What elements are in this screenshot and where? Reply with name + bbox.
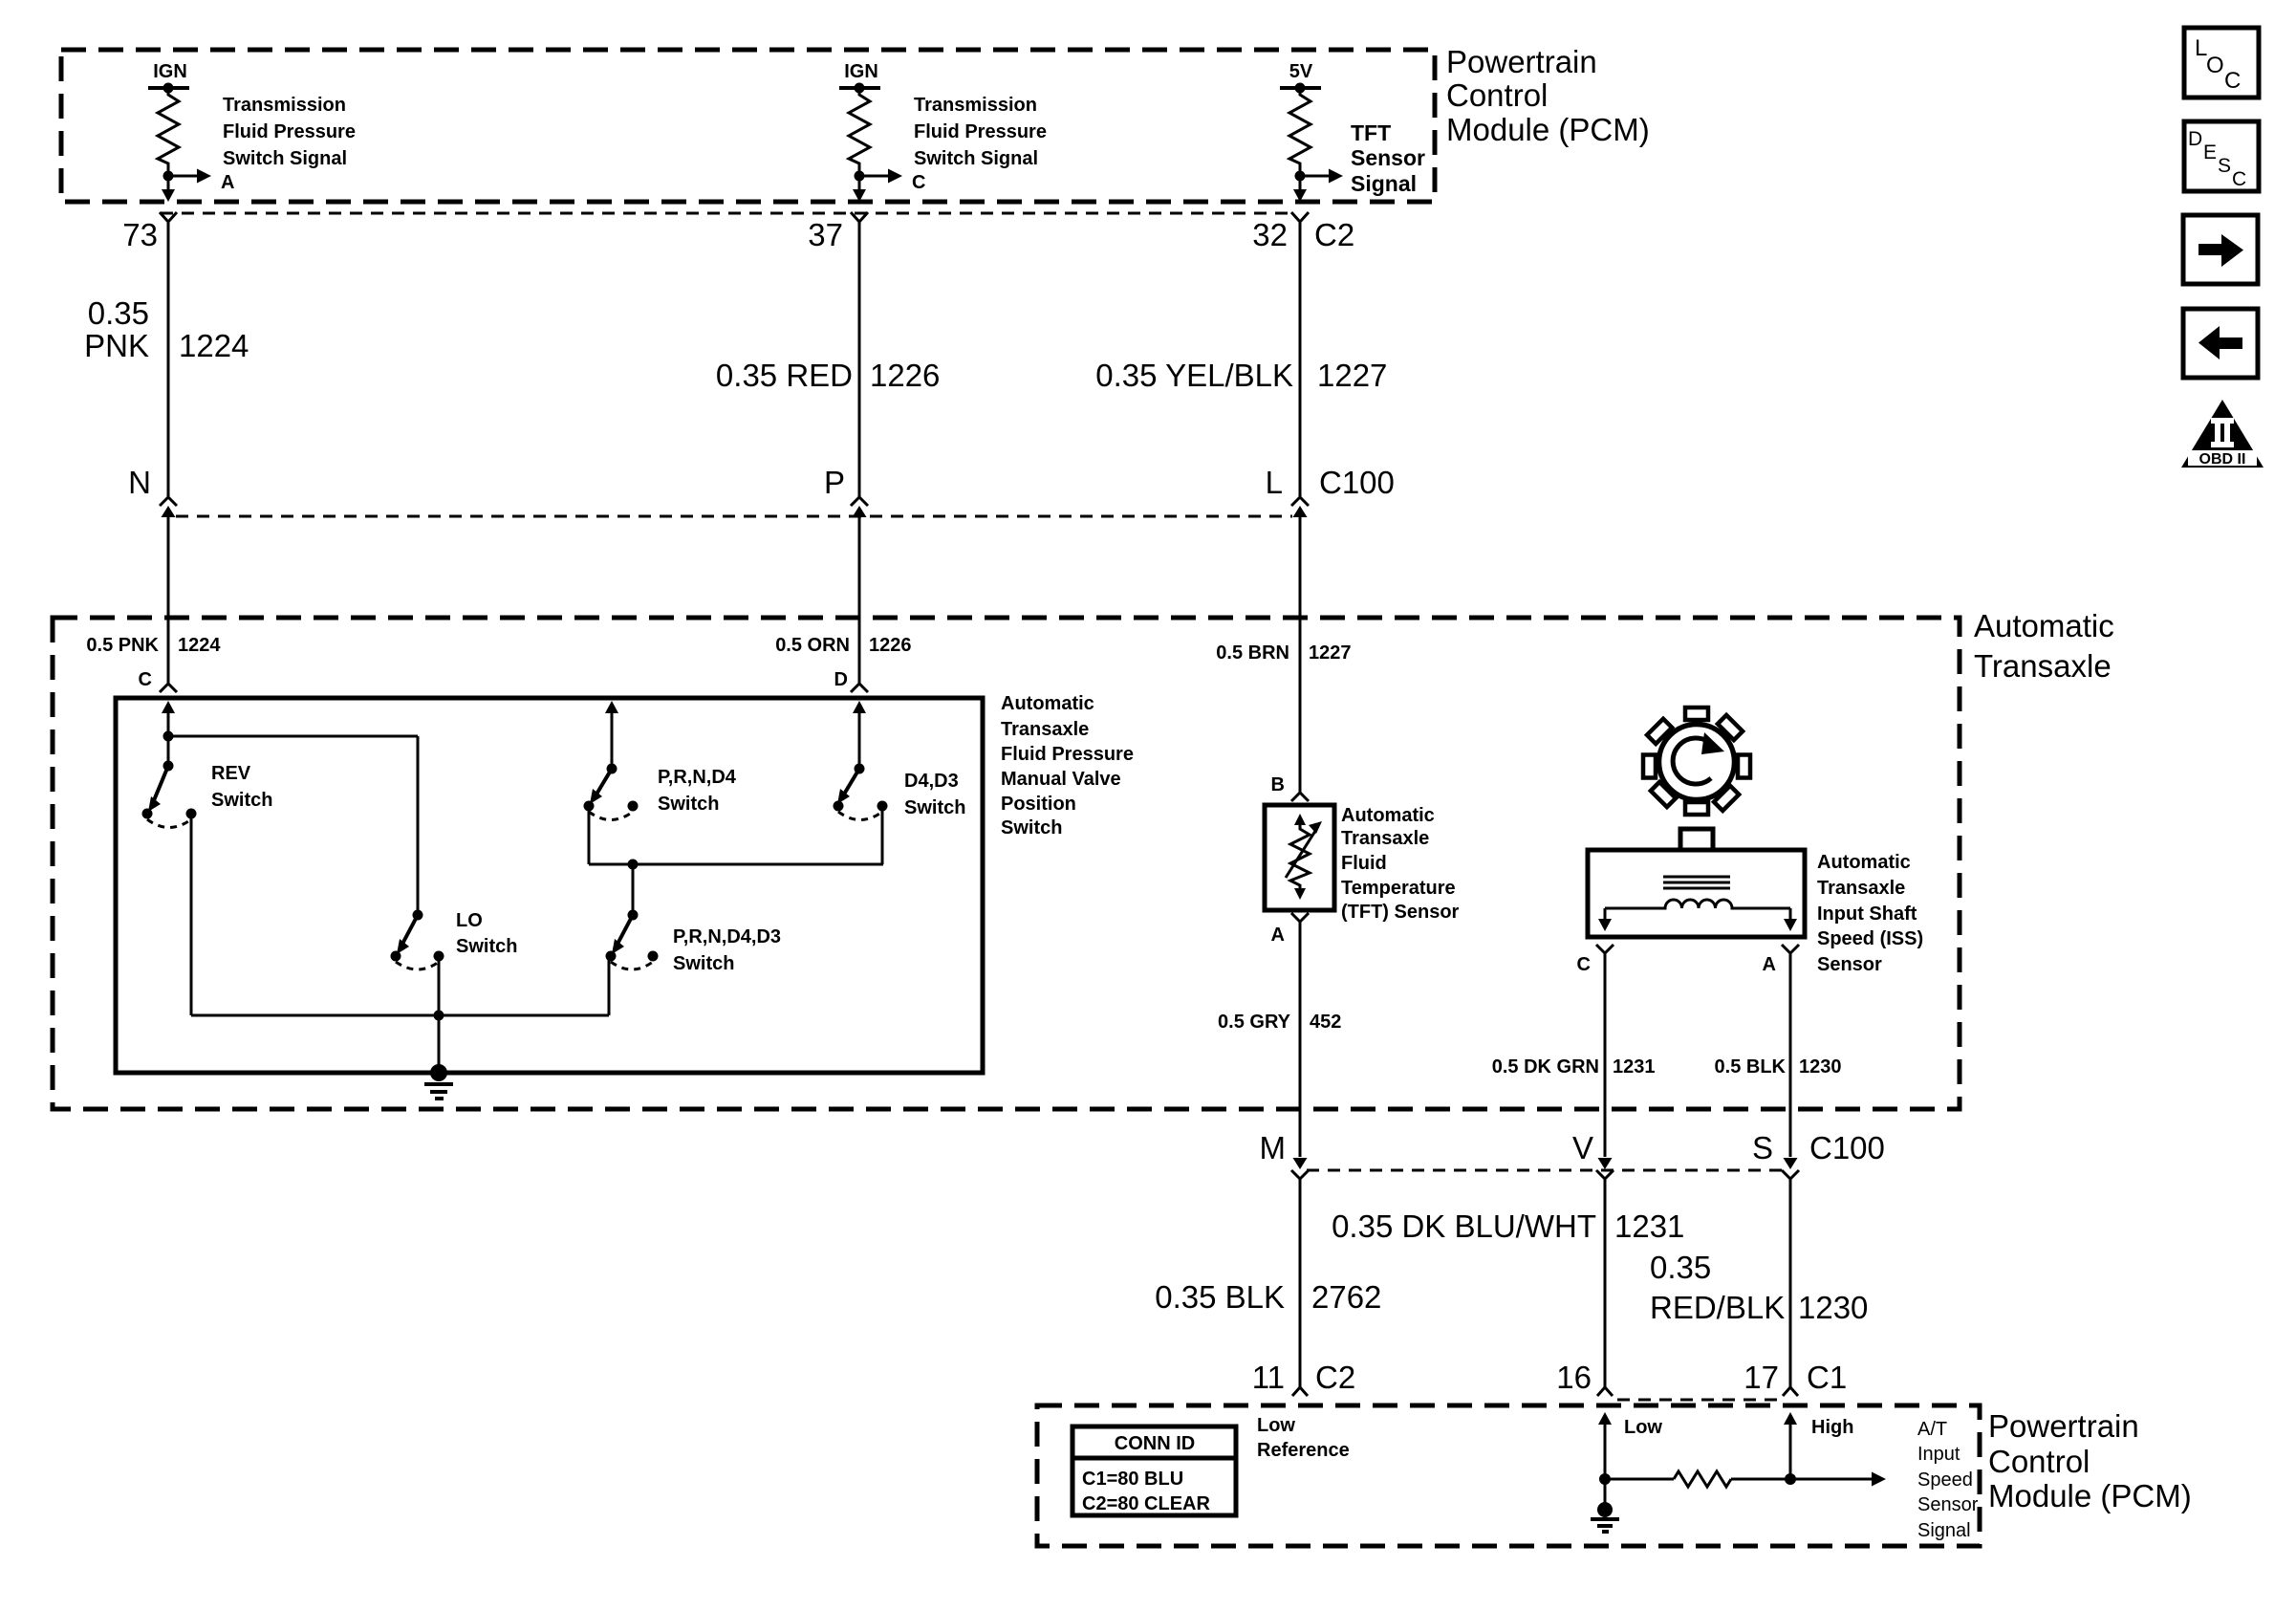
- svg-text:Low: Low: [1624, 1417, 1662, 1438]
- svg-text:Fluid Pressure: Fluid Pressure: [223, 121, 356, 142]
- svg-text:Automatic: Automatic: [1341, 805, 1435, 826]
- svg-text:C: C: [2232, 168, 2246, 190]
- svg-text:17: 17: [1744, 1360, 1779, 1395]
- svg-text:Transaxle: Transaxle: [1974, 648, 2112, 684]
- svg-text:Sensor: Sensor: [1351, 145, 1425, 170]
- svg-text:Transmission: Transmission: [223, 95, 346, 116]
- svg-text:1227: 1227: [1317, 358, 1387, 393]
- svg-text:S: S: [1752, 1130, 1773, 1165]
- svg-text:0.5 DK GRN: 0.5 DK GRN: [1492, 1056, 1599, 1078]
- svg-text:32: 32: [1252, 217, 1288, 252]
- svg-text:Transmission: Transmission: [914, 95, 1037, 116]
- svg-text:L: L: [1266, 465, 1283, 500]
- svg-text:P,R,N,D4: P,R,N,D4: [658, 767, 737, 788]
- svg-text:LO: LO: [456, 910, 483, 931]
- svg-text:Transaxle: Transaxle: [1817, 878, 1905, 899]
- svg-text:(TFT) Sensor: (TFT) Sensor: [1341, 902, 1460, 923]
- svg-text:V: V: [1572, 1130, 1593, 1165]
- svg-text:REV: REV: [211, 763, 251, 784]
- svg-text:TFT: TFT: [1351, 120, 1391, 145]
- svg-text:Powertrain: Powertrain: [1446, 44, 1597, 79]
- svg-text:Input Shaft: Input Shaft: [1817, 903, 1917, 925]
- svg-text:Speed (ISS): Speed (ISS): [1817, 928, 1923, 949]
- svg-text:D: D: [834, 669, 848, 690]
- svg-text:0.35: 0.35: [1650, 1250, 1711, 1285]
- svg-text:1230: 1230: [1798, 1290, 1868, 1325]
- svg-text:0.5 PNK: 0.5 PNK: [86, 635, 159, 656]
- svg-text:Switch Signal: Switch Signal: [223, 148, 347, 169]
- svg-text:C2: C2: [1314, 217, 1354, 252]
- svg-text:E: E: [2203, 142, 2217, 163]
- svg-text:0.35 DK BLU/WHT: 0.35 DK BLU/WHT: [1332, 1208, 1596, 1244]
- svg-text:5V: 5V: [1289, 61, 1313, 82]
- svg-text:D: D: [2188, 128, 2202, 150]
- svg-text:Powertrain: Powertrain: [1988, 1408, 2139, 1444]
- svg-text:C1: C1: [1807, 1360, 1847, 1395]
- svg-text:C1=80 BLU: C1=80 BLU: [1082, 1469, 1183, 1490]
- svg-text:0.35: 0.35: [88, 295, 149, 331]
- svg-text:Fluid Pressure: Fluid Pressure: [914, 121, 1047, 142]
- svg-text:Low: Low: [1257, 1415, 1295, 1436]
- svg-text:1227: 1227: [1309, 642, 1352, 664]
- svg-text:Automatic: Automatic: [1001, 693, 1094, 714]
- svg-text:Switch: Switch: [456, 936, 517, 957]
- svg-text:C: C: [1577, 954, 1591, 975]
- svg-text:1231: 1231: [1614, 1208, 1684, 1244]
- svg-text:OBD II: OBD II: [2199, 451, 2246, 468]
- svg-text:1230: 1230: [1799, 1056, 1842, 1078]
- svg-text:1224: 1224: [179, 328, 249, 363]
- svg-text:1231: 1231: [1613, 1056, 1656, 1078]
- svg-text:O: O: [2206, 53, 2224, 78]
- svg-text:Transaxle: Transaxle: [1001, 719, 1089, 740]
- svg-text:0.5 BRN: 0.5 BRN: [1216, 642, 1289, 664]
- svg-text:Transaxle: Transaxle: [1341, 828, 1429, 849]
- svg-text:1226: 1226: [869, 635, 912, 656]
- svg-text:1226: 1226: [870, 358, 940, 393]
- svg-text:S: S: [2218, 155, 2231, 177]
- svg-text:Fluid Pressure: Fluid Pressure: [1001, 744, 1134, 765]
- svg-text:D4,D3: D4,D3: [904, 771, 959, 792]
- svg-text:0.35 RED: 0.35 RED: [716, 358, 853, 393]
- svg-text:IGN: IGN: [153, 61, 187, 82]
- svg-text:Control: Control: [1988, 1444, 2090, 1479]
- svg-text:M: M: [1260, 1130, 1287, 1165]
- svg-text:Automatic: Automatic: [1974, 608, 2114, 643]
- svg-text:High: High: [1811, 1417, 1853, 1438]
- svg-text:Switch Signal: Switch Signal: [914, 148, 1038, 169]
- svg-text:A: A: [1763, 954, 1776, 975]
- svg-text:Signal: Signal: [1917, 1520, 1971, 1541]
- svg-text:Automatic: Automatic: [1817, 852, 1911, 873]
- svg-text:11: 11: [1252, 1360, 1285, 1395]
- svg-text:Control: Control: [1446, 77, 1548, 113]
- svg-text:C100: C100: [1809, 1130, 1885, 1165]
- svg-text:73: 73: [122, 217, 158, 252]
- svg-text:Sensor: Sensor: [1817, 954, 1882, 975]
- svg-text:452: 452: [1310, 1012, 1341, 1033]
- svg-text:Module (PCM): Module (PCM): [1988, 1478, 2192, 1513]
- svg-text:1224: 1224: [178, 635, 221, 656]
- svg-text:Fluid: Fluid: [1341, 853, 1387, 874]
- svg-text:C: C: [2224, 68, 2241, 94]
- svg-text:0.5 GRY: 0.5 GRY: [1218, 1012, 1291, 1033]
- svg-text:0.5 ORN: 0.5 ORN: [775, 635, 850, 656]
- svg-text:0.35 YEL/BLK: 0.35 YEL/BLK: [1095, 358, 1293, 393]
- svg-text:CONN ID: CONN ID: [1115, 1433, 1195, 1454]
- svg-text:Signal: Signal: [1351, 171, 1417, 196]
- svg-text:2762: 2762: [1311, 1279, 1381, 1315]
- svg-text:Switch: Switch: [673, 953, 734, 974]
- svg-text:Manual Valve: Manual Valve: [1001, 769, 1121, 790]
- svg-text:B: B: [1271, 774, 1285, 795]
- svg-text:C: C: [912, 172, 925, 193]
- svg-text:Sensor: Sensor: [1917, 1494, 1979, 1515]
- svg-text:A: A: [221, 172, 234, 193]
- svg-text:C2=80 CLEAR: C2=80 CLEAR: [1082, 1493, 1210, 1514]
- svg-text:A/T: A/T: [1917, 1419, 1947, 1440]
- svg-text:Input: Input: [1917, 1444, 1960, 1465]
- svg-text:C100: C100: [1319, 465, 1395, 500]
- svg-text:Module (PCM): Module (PCM): [1446, 112, 1650, 147]
- svg-text:Temperature: Temperature: [1341, 878, 1456, 899]
- svg-text:Switch: Switch: [211, 790, 272, 811]
- svg-text:IGN: IGN: [844, 61, 878, 82]
- svg-text:0.35 BLK: 0.35 BLK: [1155, 1279, 1285, 1315]
- svg-text:PNK: PNK: [84, 328, 149, 363]
- svg-text:C2: C2: [1315, 1360, 1355, 1395]
- svg-text:0.5 BLK: 0.5 BLK: [1715, 1056, 1787, 1078]
- svg-text:Switch: Switch: [658, 794, 719, 815]
- svg-text:P: P: [824, 465, 845, 500]
- svg-text:Switch: Switch: [904, 797, 965, 818]
- svg-text:Speed: Speed: [1917, 1469, 1973, 1491]
- svg-text:Position: Position: [1001, 794, 1076, 815]
- svg-text:16: 16: [1556, 1360, 1592, 1395]
- svg-text:N: N: [128, 465, 151, 500]
- svg-text:C: C: [139, 669, 152, 690]
- svg-text:RED/BLK: RED/BLK: [1650, 1290, 1785, 1325]
- svg-text:Switch: Switch: [1001, 817, 1062, 838]
- svg-text:A: A: [1271, 925, 1285, 946]
- svg-text:P,R,N,D4,D3: P,R,N,D4,D3: [673, 926, 781, 947]
- svg-text:Reference: Reference: [1257, 1440, 1350, 1461]
- svg-text:37: 37: [808, 217, 843, 252]
